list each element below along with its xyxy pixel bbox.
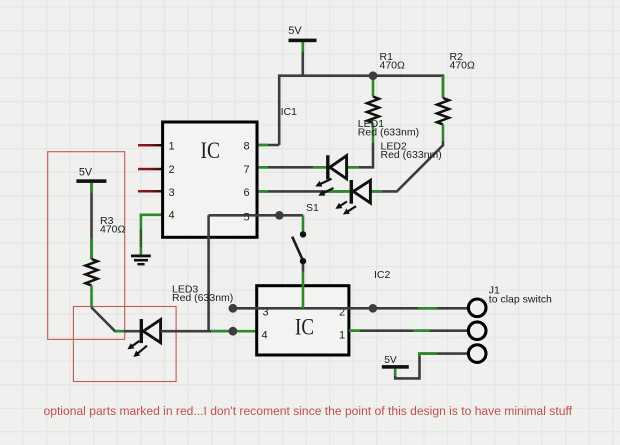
svg-text:S1: S1 (306, 202, 319, 214)
LED3 cathode stub (green) (115, 330, 124, 333)
svg-text:4: 4 (262, 330, 268, 342)
switch S1 (292, 202, 319, 261)
connector J1 (468, 284, 552, 362)
wire: IC1 pin7 to LED1 cathode (257, 166, 326, 169)
svg-text:IC: IC (201, 138, 221, 164)
svg-text:IC1: IC1 (281, 106, 298, 118)
optional-parts red box around LED3 (73, 307, 176, 382)
svg-text:1: 1 (169, 140, 175, 152)
LED2 cathode stub (green) (325, 190, 350, 193)
svg-text:7: 7 (244, 164, 250, 176)
wire: IC1 pin6 to LED2 cathode (257, 190, 350, 193)
svg-text:2: 2 (169, 164, 175, 176)
svg-text:Red (633nm): Red (633nm) (172, 292, 233, 304)
node: junction dot right of IC2 pin2 (369, 304, 378, 313)
wire: R3 to LED3 cathode (diagonal) (92, 308, 140, 332)
wire: IC1 pin4 to ground (green) (141, 215, 163, 229)
V2 pin stub (green) (90, 183, 93, 193)
LED3 anode stub (green) (211, 330, 230, 333)
svg-text:Red (633nm): Red (633nm) (358, 127, 419, 139)
power symbol 5V V1 (288, 25, 316, 42)
svg-text:5: 5 (244, 212, 250, 224)
red stub pin 2 of IC1 (138, 168, 163, 171)
power symbol 5V V2 (76, 167, 106, 183)
J1 pin3 stub (green) (420, 354, 438, 356)
node: junction dot LED3/IC2 pin4 (229, 327, 238, 336)
V3 pin stub (green) (394, 369, 397, 376)
pin stub (green) of V1 (301, 42, 304, 52)
svg-text:IC: IC (295, 315, 314, 341)
svg-text:5V: 5V (384, 355, 397, 366)
pin 6 stub (green) (257, 190, 268, 193)
wire: IC2 pin1 to J1 middle (349, 329, 469, 332)
svg-text:Red (633nm): Red (633nm) (381, 149, 442, 161)
wire: pin5 row across IC1 to switch (209, 214, 303, 217)
svg-text:3: 3 (169, 187, 175, 199)
svg-text:optional parts marked in red..: optional parts marked in red...I don't r… (44, 404, 573, 418)
svg-text:470Ω: 470Ω (450, 60, 476, 72)
IC2 pin1 stub (green) (349, 329, 360, 332)
node: junction dot pin3 start (229, 304, 238, 313)
svg-text:6: 6 (244, 187, 250, 199)
svg-text:to clap switch: to clap switch (489, 293, 552, 305)
power symbol 5V V3 (382, 355, 409, 369)
wire: vertical from pin5 wire down through IC1 to LED3 net (207, 215, 210, 331)
wire: V2 down to R3 (90, 183, 93, 259)
wire: R2 bottom diagonal to LED2 anode (370, 141, 443, 191)
svg-text:8: 8 (244, 140, 250, 152)
ground symbol (131, 255, 151, 266)
red stub pin 3 of IC1 (138, 190, 163, 193)
J1 pin2 stub (green) (413, 329, 430, 332)
IC2 pin4 stub (green) (233, 330, 257, 333)
switch S1 contact dots (300, 231, 306, 237)
wire: LED3 anode to IC2 pin4 (161, 330, 233, 333)
svg-text:4: 4 (169, 209, 175, 221)
wire: pin8 of IC1 to elbow (257, 144, 279, 147)
resistor R1 (367, 51, 405, 143)
node: junction dot on pin5 wire (275, 211, 284, 220)
LED LED1 (317, 118, 419, 195)
ratsnest dotted link (232, 311, 234, 328)
LED2 anode stub (green) (370, 190, 382, 193)
wire: top rail from pin8 elbow to R2 (279, 76, 443, 145)
wire: switch top feed (green) (302, 215, 305, 234)
LED LED3 (129, 284, 233, 356)
LED1 cathode stub (green) (313, 166, 326, 169)
R3 label (100, 215, 126, 236)
svg-text:1: 1 (339, 330, 345, 342)
optional-parts red box around R3 (48, 152, 125, 340)
wire: V3 to J1 bottom (395, 354, 468, 379)
LED1 anode stub (green) (347, 166, 359, 169)
J1 pin1 stub (green) (418, 307, 437, 310)
svg-text:470Ω: 470Ω (100, 224, 126, 236)
svg-text:470Ω: 470Ω (380, 60, 406, 72)
LED LED2 (337, 141, 442, 214)
svg-text:5V: 5V (79, 167, 93, 179)
wire: pin3 to pin2 through IC2 and out to J1 (233, 307, 469, 310)
IC IC1 (8-pin) (163, 122, 257, 237)
resistor R2 (437, 51, 475, 141)
IC IC2 (4-pin) (257, 286, 349, 355)
wire: 5V V1 down to top rail (301, 42, 304, 76)
pin 8 stub (green) (257, 144, 268, 147)
red stub pin 1 of IC1 (138, 144, 163, 147)
svg-text:5V: 5V (288, 25, 302, 37)
wire: switch bottom to IC2 inner node (302, 261, 305, 271)
resistor R3 (86, 238, 98, 308)
pin 7 stub (green) (257, 166, 268, 169)
node: junction dot top rail / R1 (369, 71, 378, 80)
wire: R1 bottom to LED1 anode (347, 143, 373, 167)
svg-text:IC2: IC2 (374, 269, 391, 281)
